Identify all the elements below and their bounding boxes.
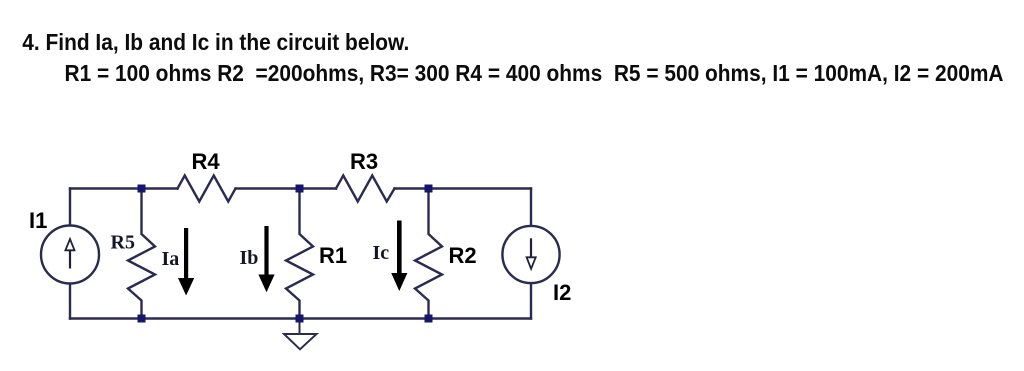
svg-text:R3: R3 — [350, 149, 378, 174]
svg-text:Ia: Ia — [162, 248, 180, 270]
svg-text:I2: I2 — [553, 280, 571, 305]
wire: top rail, left segment — [70, 187, 178, 189]
resistor R2 — [415, 189, 442, 319]
resistor R1 — [286, 189, 313, 319]
node top-1 — [138, 185, 146, 193]
svg-text:R5: R5 — [111, 232, 135, 254]
current source I1 — [41, 226, 99, 284]
svg-text:I1: I1 — [29, 208, 47, 233]
node bottom-1 — [138, 315, 146, 323]
node bottom-3 — [425, 315, 433, 323]
node top-2 — [296, 185, 304, 193]
wire: top rail, right segment — [395, 187, 532, 189]
resistor R5 — [128, 189, 155, 319]
svg-text:Ic: Ic — [373, 242, 390, 264]
resistor R3 — [336, 176, 395, 202]
svg-text:Ib: Ib — [240, 247, 259, 269]
resistor R4 — [178, 176, 236, 202]
svg-text:R4: R4 — [192, 149, 221, 174]
wire: bottom rail — [70, 317, 531, 319]
current arrow Ia — [178, 228, 194, 296]
current arrow Ic — [391, 221, 407, 292]
svg-text:R1 = 100 ohms R2 =200ohms, R3: R1 = 100 ohms R2 =200ohms, R3= 300 R4 = … — [65, 60, 1004, 86]
node top-3 — [425, 185, 433, 193]
wire: top rail, middle segment — [236, 187, 337, 189]
node bottom-2 — [296, 315, 304, 323]
svg-text:R2: R2 — [449, 243, 477, 268]
ground — [284, 319, 317, 350]
svg-text:R1: R1 — [319, 243, 347, 268]
current source I2 — [502, 226, 559, 283]
wire top with R4 and R3 inline — [70, 176, 531, 319]
current arrow Ib — [258, 226, 274, 292]
svg-text:4. Find Ia, Ib and Ic in the c: 4. Find Ia, Ib and Ic in the circuit bel… — [22, 29, 409, 55]
wire: left branch with I1 — [69, 189, 71, 319]
wire: right branch with I2 — [530, 189, 532, 319]
